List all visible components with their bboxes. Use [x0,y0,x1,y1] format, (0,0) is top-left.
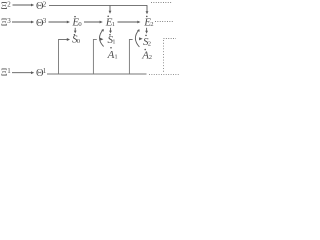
svg-text:1: 1 [112,21,115,28]
svg-text:3: 3 [7,17,11,25]
node E1 with dot [107,15,109,17]
svg-text:2: 2 [148,41,151,48]
wire arrow Theta^3 to E0 [49,21,71,24]
svg-text:1: 1 [7,67,11,75]
node E0 with dot [74,16,76,18]
wire dotted elbow (next group) [164,39,177,73]
wire down arrow E1 to S1 [109,28,112,34]
wire arrow E0 to E1 [84,21,103,24]
wire T-branch down arrow to E1 [109,6,112,14]
node S1 [109,34,111,36]
wire down arrow E0 to S0 [74,28,77,34]
svg-text:0: 0 [78,21,82,28]
svg-text:1: 1 [114,54,117,61]
wire arrow Xi^3 to Theta^3 [12,21,34,24]
wire bottom dotted continuation [149,73,180,75]
wire elbow arrow from bottom line toward S1 (crosses arc) [93,38,103,74]
svg-text:2: 2 [149,54,152,61]
wire arrow Xi^1 to Theta^1 [12,71,34,74]
svg-text:2: 2 [150,21,153,28]
wire elbow arrow from bottom line toward S2 (crosses arc) [129,37,142,74]
svg-text:A: A [107,49,115,61]
wire arrow Xi^2 to Theta^2 [13,4,35,7]
wire bottom long line from Theta^1 [47,73,147,75]
wire corner down arrow to E2 [146,5,149,14]
node E2 with dot [146,16,148,18]
wire arrow E1 to E2 [118,21,141,24]
wire elbow arrow from bottom line to S0 [59,38,71,74]
node S0 with dot [74,34,76,36]
curved arrow A2 to E2 (arc) [135,30,139,47]
wire long line from Theta^2 [49,5,147,7]
wire down arrow E2 to S2 [145,28,148,34]
svg-text:0: 0 [77,38,81,45]
node A2 with dot [144,49,146,51]
svg-text:1: 1 [112,39,115,46]
node S2 [145,35,147,37]
curved arrow A1 to E1 (arc) [99,30,103,47]
svg-text:2: 2 [43,1,47,9]
svg-text:2: 2 [7,1,11,9]
wire dotted continuation top right [151,2,172,4]
node A1 with dot [110,47,112,49]
svg-text:1: 1 [43,67,47,75]
svg-text:3: 3 [43,17,47,25]
wire dotted continuation row 2 [155,21,174,23]
